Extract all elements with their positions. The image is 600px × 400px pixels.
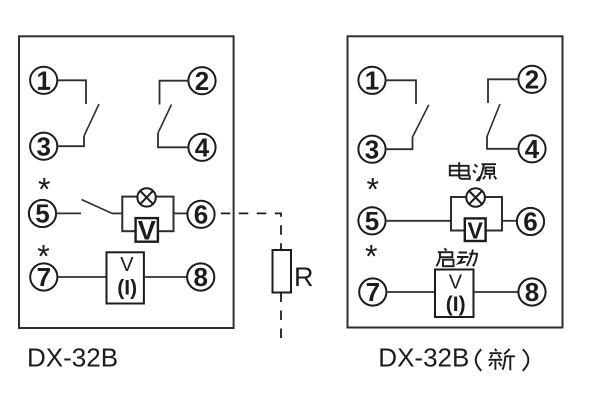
right wire contact to terminal3 [386, 137, 413, 149]
svg-text:6: 6 [194, 200, 208, 230]
svg-text:R: R [294, 262, 314, 292]
right terminal 6 [517, 207, 544, 237]
right terminal 3 [358, 134, 385, 164]
wire contact to terminal4 [158, 133, 188, 147]
wire terminal1 to contact [57, 80, 86, 104]
terminal 5 [29, 199, 56, 229]
svg-text:(I): (I) [446, 293, 466, 316]
right signal lamp [466, 188, 485, 207]
label dianyuan (power) [450, 162, 497, 181]
wire terminal7 to V(I) box [57, 276, 106, 278]
svg-text:V: V [120, 254, 134, 276]
left relay case outline [19, 36, 234, 328]
contact blade 1-3 [84, 104, 99, 136]
right terminal 8 [518, 277, 545, 307]
voltage element V [136, 216, 158, 246]
svg-text:(I): (I) [117, 277, 137, 300]
terminal 1 [30, 66, 57, 96]
svg-text:V: V [468, 218, 484, 244]
svg-text:DX-32B: DX-32B [27, 343, 118, 373]
dashed wire below resistor [280, 293, 282, 344]
right wire box to terminal 6 [502, 220, 517, 222]
svg-text:8: 8 [193, 262, 207, 292]
svg-text:5: 5 [35, 199, 49, 229]
right terminal 1 [358, 66, 385, 96]
terminal 6 [187, 200, 214, 230]
svg-text:5: 5 [365, 206, 379, 236]
right lamp/voltage parallel box [451, 197, 502, 231]
right terminal 5 [358, 206, 385, 236]
wire box to terminal 6 [174, 212, 188, 214]
wire V(I) box to terminal 8 [144, 276, 187, 278]
svg-text:DX-32B: DX-32B [378, 343, 469, 373]
character xin (new) [489, 349, 516, 371]
svg-text:*: * [365, 239, 377, 275]
svg-text:6: 6 [523, 207, 537, 237]
svg-text:*: * [366, 172, 378, 208]
svg-text:1: 1 [36, 66, 50, 96]
svg-text:7: 7 [366, 277, 380, 307]
terminal 7 [30, 262, 57, 292]
svg-text:1: 1 [365, 66, 379, 96]
right wire contact to terminal4 [487, 137, 518, 149]
right relay case outline [348, 36, 563, 327]
switch blade 5 [82, 200, 113, 214]
right wire terminal2 to contact [488, 79, 518, 103]
right contact blade 2-4 [487, 104, 500, 137]
right wire terminal5 to lamp box [386, 220, 451, 222]
wire contact to terminal3 [57, 136, 84, 146]
right terminal 7 [359, 277, 386, 307]
fullwidth left paren [476, 349, 482, 371]
terminal 2 [188, 66, 215, 96]
lamp/voltage parallel box [122, 197, 173, 232]
dashed external wire from 6 [221, 213, 281, 250]
right wire terminal7 to V(I) box [386, 291, 434, 293]
terminal 3 [30, 131, 57, 161]
label qidong (start) [436, 248, 477, 266]
svg-text:V: V [449, 271, 463, 293]
right terminal 4 [518, 134, 545, 164]
svg-text:3: 3 [36, 131, 50, 161]
svg-text:4: 4 [525, 134, 540, 164]
right wire V(I) box to terminal 8 [474, 291, 518, 293]
V(I) element box [107, 252, 144, 303]
wire terminal2 to contact [160, 81, 189, 105]
svg-text:V: V [138, 216, 156, 246]
svg-text:7: 7 [37, 262, 51, 292]
svg-text:4: 4 [195, 133, 210, 163]
terminal 8 [187, 262, 214, 292]
right V(I) element box [435, 270, 474, 318]
svg-text:8: 8 [525, 277, 539, 307]
svg-text:3: 3 [365, 134, 379, 164]
wire switch to lamp box [112, 212, 122, 214]
signal lamp [137, 188, 155, 206]
right terminal 2 [518, 65, 545, 95]
fullwidth right paren [523, 349, 529, 371]
right voltage element V [465, 218, 486, 244]
right contact blade 1-3 [413, 105, 429, 137]
resistor R [273, 250, 314, 293]
wire terminal5 to switch [56, 212, 81, 214]
right wire terminal1 to contact [386, 80, 416, 104]
terminal 4 [188, 133, 215, 163]
svg-text:2: 2 [525, 65, 539, 95]
svg-text:2: 2 [195, 66, 209, 96]
contact blade 2-4 [158, 105, 172, 134]
